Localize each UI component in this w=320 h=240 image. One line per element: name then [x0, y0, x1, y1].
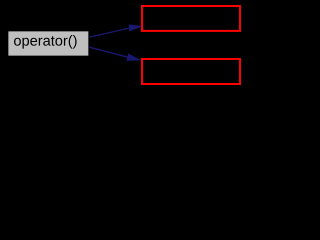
arrowhead to top callee — [129, 25, 141, 31]
node truncated callee 1 (red box, top) — [142, 6, 240, 31]
edge line to bottom callee — [89, 47, 128, 57]
label operator() (glyph outlines) — [14, 35, 77, 49]
node operator() (grey caller box) — [8, 31, 89, 57]
edge line to top callee — [89, 28, 129, 37]
node truncated callee 2 (red box, bottom) — [142, 59, 240, 84]
arrowhead to bottom callee — [127, 54, 140, 60]
